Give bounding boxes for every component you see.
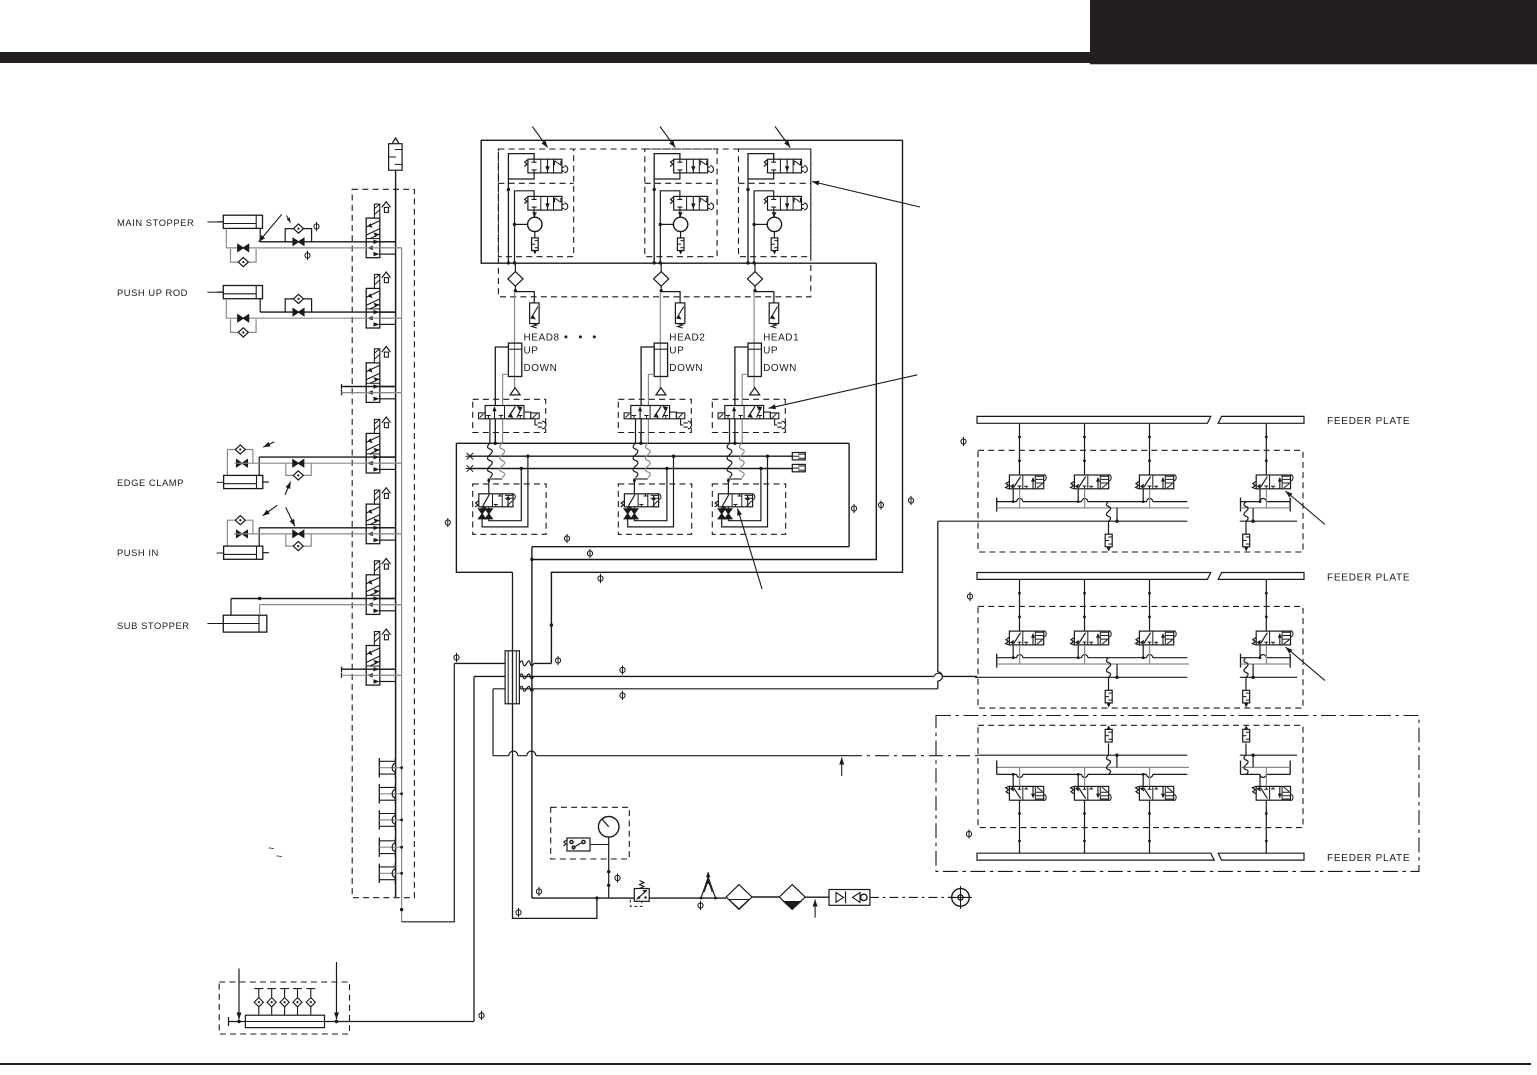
shutoff coupling: [829, 890, 870, 906]
rod line HEAD8: [514, 292, 516, 388]
air main line 3: [752, 896, 779, 898]
outlet coupling 1 (left manifold): [379, 758, 403, 777]
wire: HEAD8 valve2 feed: [515, 191, 535, 263]
feeder3 dashed box: [978, 725, 1303, 827]
wire: HEAD1 supply loop: [748, 154, 774, 263]
phi mark: [878, 500, 883, 509]
line B (PUSH UP ROD) to valve V2: [226, 317, 401, 319]
sub valve dashed box (group1): [473, 484, 546, 534]
wire: head box supply riser: [551, 140, 902, 663]
manifold inlet arrow 2: [336, 962, 338, 1020]
cylinder MAIN STOPPER: [223, 215, 262, 228]
cylinder SUB STOPPER: [223, 615, 266, 632]
bus line B (middle): [470, 468, 792, 470]
feeder3 right sub-group: [1240, 761, 1242, 775]
wire: HEAD2 supply loop: [654, 154, 680, 263]
pass line 2 (to feeder plate 2): [474, 675, 534, 677]
wire: HEAD8 supply loop: [508, 154, 534, 263]
3/2 valve V6 (left manifold): [366, 558, 401, 614]
svg-text:~: ~: [276, 851, 282, 863]
annotation arrow to head group 3 valve: [812, 182, 920, 208]
svg-text:FEEDER PLATE: FEEDER PLATE: [1327, 853, 1410, 864]
plugged line caps for V3: [341, 384, 343, 390]
phi mark: [445, 518, 450, 527]
wire: head box return drop: [532, 263, 876, 559]
riser manifold-to-line2: [473, 676, 475, 1021]
wrap line outer (group2): [628, 456, 674, 527]
wire: HEAD2 valve2 feed: [660, 191, 680, 263]
wire: HEAD8 inter-valve link: [508, 173, 534, 179]
FEEDER PLATE 1 right sub-group supply: [1240, 520, 1297, 522]
filter 1: [726, 885, 752, 910]
air source symbol: [952, 889, 970, 907]
wire: to speed controller HEAD2: [661, 286, 680, 303]
FEEDER PLATE 1 valve tails (left group): [1012, 489, 1014, 502]
cylinder HEAD2: [654, 343, 667, 376]
FEEDER PLATE 2 right sub-group busses: [1240, 654, 1242, 668]
vacuum manifold dashed box: [219, 982, 349, 1034]
wire: to speed controller HEAD1: [755, 286, 774, 303]
annotation arrow to main valve group3: [769, 375, 918, 409]
manifold feed line: [228, 1017, 230, 1026]
FEEDER PLATE 1 right sub-group busses: [1240, 498, 1242, 512]
annotation arrow to FEEDER PLATE 2 valve 4: [1286, 647, 1326, 681]
phi mark: [555, 656, 560, 665]
port size mark phi: [314, 222, 319, 231]
feeder3 valves (inverted): [1006, 786, 1047, 800]
phi mark: [615, 873, 620, 882]
line B (PUSH IN) to valve V5: [234, 533, 402, 535]
pilot valve HEAD1-a: [768, 159, 802, 173]
bus B terminator plug: [792, 464, 805, 471]
check valve HEAD2: [660, 263, 662, 271]
air main line 4: [805, 896, 829, 898]
feeder3 outer dash-dot box: [936, 716, 1419, 872]
main head valve 5/2: [479, 406, 547, 429]
wires: cylinder HEAD1 ports: [735, 347, 748, 443]
phi mark: [967, 592, 972, 601]
main valve dashed box: [618, 399, 691, 432]
flow control w/ check (PUSH IN, cylinder side): [227, 520, 253, 534]
wires: SUB STOPPER ports: [230, 599, 232, 616]
head group outer dashed box: [498, 149, 810, 297]
svg-text:DOWN: DOWN: [524, 363, 558, 374]
booster circle HEAD2: [673, 217, 687, 231]
riser from box-left to bulkhead: [513, 572, 597, 918]
left valve manifold dashed enclosure: [352, 189, 414, 897]
FEEDER PLATE 2 plate bar: [977, 573, 1211, 580]
header rule bar: [0, 52, 1092, 63]
drop to feeder3 supply: [492, 689, 494, 756]
head supply box outline: [481, 140, 902, 263]
annotation arrow to FEEDER PLATE 1 valve 4: [1286, 491, 1326, 525]
speed controller HEAD8: [530, 303, 540, 324]
air main line: [532, 897, 634, 899]
pointer: EDGE CLAMP: [217, 481, 224, 483]
svg-text:SUB STOPPER: SUB STOPPER: [117, 620, 190, 631]
pressure switch dashed box: [551, 807, 630, 859]
wrap line inner (group1): [489, 469, 522, 521]
wire: valve2 to booster: [679, 210, 681, 217]
FEEDER PLATE 2 valve tails (left group): [1012, 645, 1014, 658]
pressure switch: [567, 838, 590, 851]
air main line 2: [649, 897, 726, 899]
sub valve 3/2 (group3): [715, 494, 755, 511]
booster circle HEAD1: [767, 217, 781, 231]
annotation arrow into head group 1: [532, 127, 547, 148]
manifold block: [245, 1015, 324, 1027]
supply collector line (y546): [532, 443, 849, 898]
svg-text:FEEDER PLATE: FEEDER PLATE: [1327, 416, 1410, 427]
FEEDER PLATE 2 exhaust bus (left group): [996, 654, 998, 668]
double restrictors (group3): [721, 507, 723, 519]
wires: MAIN STOPPER cylinder ports: [225, 228, 227, 248]
3/2 valve V1 (left manifold): [366, 202, 401, 258]
bus line P (middle section top): [456, 443, 849, 572]
wire: valve2 to booster: [533, 210, 535, 217]
wrap line outer (group3): [722, 456, 768, 527]
phi mark: [966, 829, 971, 838]
wire: muffler to supply bus: [395, 170, 397, 189]
annotation arrow (edge clamp fitting): [263, 442, 274, 447]
feeder3 exhaust bus (left group): [997, 766, 1189, 768]
svg-text:UP: UP: [763, 345, 778, 356]
feeder3 supply line: [493, 755, 848, 757]
booster exhaust muffler HEAD2: [680, 232, 682, 238]
wire: valve2 to booster: [773, 210, 775, 217]
FEEDER PLATE 1 pilot bus (left group): [997, 507, 1189, 509]
supply bus (left manifold): [395, 189, 397, 897]
head group 1 dashed box: [498, 149, 573, 257]
gauge stem: [608, 837, 610, 898]
plug lines V7 (spare): [342, 668, 396, 670]
3/2 valve V2 (left manifold): [366, 272, 401, 328]
line A (EDGE CLAMP) to valve V4: [259, 456, 395, 458]
sub valve 3/2 (group1): [475, 494, 515, 511]
phi mark: [598, 574, 603, 583]
pointer: PUSH IN: [217, 552, 224, 554]
head group 2 dashed box: [645, 149, 717, 257]
wrap line outer (group1): [482, 456, 528, 527]
line B (SUB STOPPER) to valve V6: [260, 604, 402, 606]
rod line HEAD1: [753, 292, 755, 388]
line A (PUSH IN) to valve V5: [259, 527, 395, 529]
press foot HEAD1: [750, 388, 760, 395]
pointer: PUSH UP ROD: [207, 291, 223, 293]
wire: HEAD1 valve2 feed: [754, 191, 774, 263]
check valve HEAD8: [514, 263, 516, 271]
annotation arrow (edge clamp check): [285, 482, 291, 495]
bus line A (middle): [470, 455, 792, 457]
rod line HEAD2: [659, 292, 661, 388]
pilot valve HEAD8-a: [528, 159, 562, 173]
pilot valve HEAD1-b: [768, 196, 802, 210]
plug lines V3 (spare): [342, 386, 396, 388]
feeder3 supply inside: [977, 754, 1187, 756]
flow control w/ check (EDGE CLAMP, cylinder side): [227, 450, 253, 464]
phi mark: [564, 534, 569, 543]
sub valve 3/2 (group2): [621, 494, 661, 511]
wires: cylinder HEAD8 ports: [495, 347, 508, 443]
bus A terminator plug: [792, 453, 805, 460]
svg-text:EDGE CLAMP: EDGE CLAMP: [117, 477, 184, 488]
small arrow mark: [287, 216, 291, 223]
manifold check valves: [254, 989, 263, 1016]
FEEDER PLATE 1 muffler drop (left group): [1106, 502, 1110, 522]
FEEDER PLATE 1 supply line: [938, 520, 1188, 522]
outlet coupling 3 (left manifold): [379, 810, 403, 829]
FEEDER PLATE 2 muffler drop (left group): [1106, 658, 1110, 678]
FEEDER PLATE 1 drop wires: [1019, 423, 1021, 475]
line A (MAIN STOPPER) to valve V1: [260, 241, 395, 243]
phi mark: [620, 691, 625, 700]
port size mark phi: [305, 251, 310, 260]
flow control w/ check (MAIN STOPPER, line side): [285, 229, 311, 242]
wrap line inner (group3): [728, 469, 761, 521]
pass line 3 (to feeder plates 1,3): [493, 688, 534, 690]
FEEDER PLATE 1 plate bar: [977, 416, 1211, 423]
filter 2 (mist separator): [779, 885, 805, 910]
annotation arrow at air line: [814, 900, 816, 918]
double restrictors (group1): [481, 507, 483, 519]
svg-text:MAIN STOPPER: MAIN STOPPER: [117, 217, 194, 228]
cylinder EDGE CLAMP: [226, 463, 228, 475]
wire: exhaust bus to junction riser: [402, 663, 455, 921]
FEEDER PLATE 1 dashed box: [978, 450, 1303, 552]
line A (PUSH UP ROD) to valve V2: [260, 311, 395, 313]
sub valve dashed box (group2): [618, 484, 691, 534]
cylinder HEAD1: [748, 343, 761, 376]
FEEDER PLATE 1 exhaust bus (left group): [996, 498, 998, 512]
main valve dashed box: [712, 399, 785, 432]
phi mark: [961, 437, 966, 446]
plugged line caps for V7: [341, 667, 343, 673]
phi mark: [698, 901, 703, 910]
FEEDER PLATE 2 right sub-group supply: [1240, 676, 1297, 678]
phi mark: [479, 1011, 484, 1020]
booster circle HEAD8: [528, 217, 542, 231]
pressure gauge: [598, 817, 619, 838]
phi mark: [587, 549, 592, 558]
speed controller HEAD2: [675, 303, 685, 324]
svg-text:PUSH IN: PUSH IN: [117, 547, 159, 558]
3/2 valve V4 (left manifold): [366, 417, 401, 473]
annotation arrow into head group 2: [660, 127, 675, 148]
feeder3 drop wires to plate: [1019, 800, 1021, 853]
outlet coupling 4 (left manifold): [379, 838, 403, 857]
annotation arrow to sub valve group3: [738, 508, 763, 589]
press foot HEAD8: [510, 388, 520, 395]
booster exhaust muffler HEAD1: [773, 232, 775, 238]
pilot valve HEAD2-a: [674, 159, 708, 173]
cylinder PUSH IN: [226, 534, 228, 546]
pointer: MAIN STOPPER: [207, 221, 223, 223]
bulkhead junction block: [505, 651, 519, 704]
supply stub (dash-dot): [870, 896, 952, 898]
phi mark: [620, 665, 625, 674]
FEEDER PLATE 1 valves: [1006, 475, 1047, 489]
flow control w/ check (EDGE CLAMP, line side): [286, 463, 311, 475]
head group 3 dashed box: [739, 149, 811, 257]
phi mark: [516, 908, 521, 917]
svg-text:DOWN: DOWN: [669, 363, 703, 374]
wire: switch to gauge stem: [590, 844, 609, 846]
svg-text:FEEDER PLATE: FEEDER PLATE: [1327, 572, 1410, 583]
3/2 valve V7 (left manifold): [366, 629, 401, 685]
sub valve dashed box (group3): [712, 484, 785, 534]
check valve HEAD1: [754, 263, 756, 271]
annotation arrow (push-in fitting): [263, 505, 278, 515]
feeder3 plate bar: [977, 853, 1214, 860]
svg-text:HEAD8: HEAD8: [524, 333, 560, 344]
wire: HEAD2 inter-valve link: [654, 173, 680, 179]
svg-text:DOWN: DOWN: [763, 363, 797, 374]
regulator: [634, 889, 649, 902]
annotation arrow (push-in check): [286, 507, 295, 526]
double restrictors (group2): [627, 507, 629, 519]
pointer: SUB STOPPER: [207, 623, 223, 625]
pass line 1 (to head supply riser): [454, 662, 505, 664]
feeder3 mufflers + risers: [1108, 743, 1110, 755]
line A (SUB STOPPER) to valve V6: [231, 598, 396, 600]
svg-text:HEAD1: HEAD1: [763, 333, 799, 344]
annotation arrow to MAIN STOPPER fitting: [259, 214, 282, 242]
3/2 valve V3 (left manifold): [366, 346, 401, 402]
phi mark: [851, 504, 856, 513]
phi mark: [536, 887, 541, 896]
svg-text:~: ~: [268, 843, 274, 855]
flow control w/ check (PUSH UP ROD, line side): [285, 299, 311, 312]
phi mark: [454, 653, 459, 662]
press foot HEAD2: [656, 388, 666, 395]
wire: to speed controller HEAD8: [515, 286, 534, 303]
flow control w/ check (PUSH IN, line side): [286, 534, 311, 546]
FEEDER PLATE 2 pilot bus (left group): [997, 663, 1189, 665]
feeder3 valve heads: [1012, 774, 1014, 786]
wires: cylinder HEAD2 ports: [641, 347, 654, 443]
bottom rule: [0, 1063, 1531, 1065]
line B (MAIN STOPPER) to valve V1: [226, 247, 401, 249]
svg-text:UP: UP: [524, 345, 539, 356]
header title block (solid): [1090, 0, 1537, 64]
annotation arrow into head group 3: [775, 127, 790, 148]
drain leg (gray L): [512, 917, 514, 919]
flow control w/ check (PUSH UP ROD, cylinder side): [231, 319, 257, 332]
svg-text:HEAD2: HEAD2: [669, 333, 705, 344]
wires: PUSH UP ROD cylinder ports: [225, 299, 227, 319]
speed controller HEAD1: [769, 303, 779, 324]
cylinder PUSH UP ROD: [223, 286, 262, 299]
cylinder HEAD8: [508, 343, 521, 376]
drop wires / coils above sub valve (group2): [635, 419, 637, 444]
main valve dashed box: [473, 399, 546, 432]
3/2 valve V5 (left manifold): [366, 488, 401, 544]
outlet coupling 2 (left manifold): [379, 784, 403, 803]
main head valve 5/2: [624, 406, 691, 429]
booster exhaust muffler HEAD8: [534, 232, 536, 238]
FEEDER PLATE 2 valves: [1006, 631, 1047, 645]
pilot valve HEAD8-b: [528, 196, 562, 210]
relief valve: [701, 877, 716, 898]
svg-text:PUSH UP ROD: PUSH UP ROD: [117, 287, 188, 298]
annotation arrow at feeder3 supply: [841, 758, 843, 777]
FEEDER PLATE 2 dashed box: [978, 606, 1303, 708]
wire: HEAD1 inter-valve link: [748, 173, 774, 179]
exhaust bus (left manifold): [401, 248, 403, 922]
main head valve 5/2: [718, 406, 785, 429]
riser feeder1 supply: [937, 521, 939, 689]
svg-text:UP: UP: [669, 345, 684, 356]
pilot valve HEAD2-b: [674, 196, 708, 210]
wrap line inner (group2): [634, 469, 667, 521]
outlet coupling 5 (left manifold): [379, 864, 403, 883]
supply muffler F1 on top of left manifold: [389, 144, 403, 171]
line B (EDGE CLAMP) to valve V4: [234, 462, 402, 464]
flow control w/ check (MAIN STOPPER, cylinder side): [231, 249, 257, 262]
drop wires / coils above sub valve (group1): [489, 419, 491, 444]
FEEDER PLATE 2 supply line: [975, 676, 1187, 678]
drop wires / coils above sub valve (group3): [729, 419, 731, 444]
phi mark: [908, 496, 913, 505]
manifold inlet arrow 1: [238, 969, 240, 1020]
FEEDER PLATE 2 drop wires: [1019, 579, 1021, 631]
